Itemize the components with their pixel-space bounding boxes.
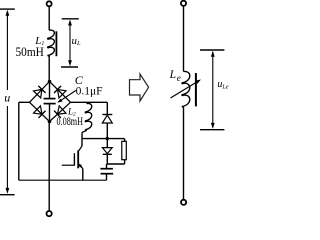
svg-text:u: u (4, 90, 10, 104)
svg-text:uL: uL (72, 35, 82, 47)
svg-text:50mH: 50mH (16, 44, 44, 59)
svg-text:L: L (169, 69, 176, 81)
svg-text:e: e (177, 73, 181, 83)
svg-text:0.1μF: 0.1μF (76, 84, 103, 98)
svg-text:0.08mH: 0.08mH (57, 116, 84, 128)
svg-text:uLe: uLe (217, 79, 228, 90)
